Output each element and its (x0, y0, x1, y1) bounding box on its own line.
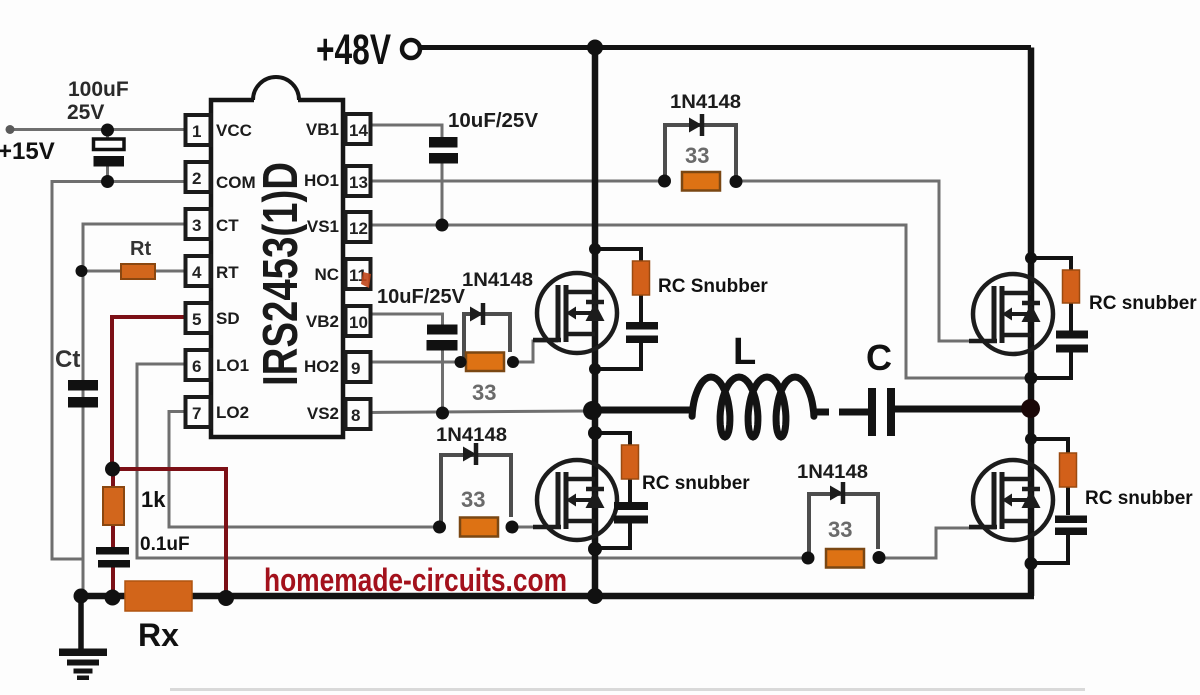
right half-bridge rail (1028, 48, 1035, 597)
node SD pulldown to ground rail (218, 590, 234, 606)
diode D3 1N4148 (463, 443, 476, 465)
diode clamp 1: 1N4148 + 33 on HO1 (665, 125, 736, 181)
wire pin8 VS2 to output node (371, 411, 588, 413)
svg-text:VCC: VCC (216, 121, 252, 140)
svg-text:RC snubber: RC snubber (642, 473, 750, 494)
capacitor RC snubber 1 (626, 322, 658, 330)
node +48V terminal circle (402, 40, 420, 58)
wire pin9 HO2 to diode clamp 2 (371, 361, 462, 364)
capacitor C plates (868, 388, 876, 436)
svg-text:1N4148: 1N4148 (436, 425, 507, 446)
svg-text:RT: RT (216, 263, 239, 282)
wire 100uF bottom lead (106, 166, 109, 182)
svg-text:LO2: LO2 (216, 403, 249, 422)
node Q4 snubber top tap (1025, 433, 1037, 445)
node 0.1uF to ground rail (105, 590, 121, 606)
svg-text:14: 14 (349, 121, 368, 140)
wire pin6 LO1 down and right to 1N4148/33 of Q4 (137, 364, 808, 558)
svg-text:10uF/25V: 10uF/25V (448, 110, 539, 132)
node clamp2 left (455, 356, 467, 368)
capacitor RC snubber 3 (1056, 331, 1088, 339)
pin 12 box (346, 212, 371, 242)
pin 5 box (186, 303, 211, 333)
node output left (bridge midpoint) (583, 401, 602, 420)
pin 13 box (346, 166, 371, 196)
inductor L coil (692, 377, 814, 437)
svg-text:Rx: Rx (138, 617, 179, 653)
svg-text:CT: CT (216, 216, 239, 235)
IC notch (254, 97, 298, 104)
wire 1k bottom to 0.1uF top (111, 524, 115, 548)
node Q1 snubber bottom tap (589, 363, 601, 375)
RC snubber 4 wiring (Q4) (1031, 439, 1068, 454)
svg-text:1k: 1k (141, 487, 166, 512)
node Rt / CT junction (76, 265, 88, 277)
svg-text:2: 2 (192, 169, 201, 188)
svg-text:Ct: Ct (55, 346, 80, 373)
ground symbol (78, 596, 84, 650)
node ground junction (74, 589, 89, 604)
wire SD node through 1k to 0.1uF (111, 469, 115, 489)
wire +15V to pin1 VCC (10, 128, 185, 131)
pin 3 box (186, 209, 211, 239)
capacitor 100uF/25V electrolytic (94, 139, 125, 150)
diode clamp 2: 1N4148 + 33 on HO2 (464, 314, 510, 362)
wire C right plate to right rail (895, 406, 1031, 413)
wire pin14 VB1 to 10uF/25V cap (371, 125, 442, 138)
node clamp1 left (658, 175, 671, 188)
node top rail / left bridge (587, 40, 603, 56)
svg-text:NC: NC (314, 265, 339, 284)
resistor Rt (121, 264, 155, 279)
svg-text:VS2: VS2 (307, 404, 339, 423)
svg-text:COM: COM (216, 173, 256, 192)
svg-text:25V: 25V (67, 101, 104, 124)
wire pin4 RT through Rt to CT line (81, 270, 185, 273)
node output right (C to right rail) (1021, 399, 1040, 418)
svg-text:1N4148: 1N4148 (462, 270, 533, 291)
svg-text:HO2: HO2 (304, 357, 339, 376)
svg-text:7: 7 (192, 404, 201, 423)
pin 6 box (186, 350, 211, 380)
svg-text:6: 6 (192, 357, 201, 376)
transistor Q2 MOSFET bottom-left (533, 460, 617, 540)
diode clamp 3: 1N4148 + 33 on Q2 gate (441, 455, 511, 527)
capacitor RC snubber 2 (614, 502, 648, 510)
svg-text:0.1uF: 0.1uF (140, 534, 190, 555)
capacitor 10uF/25V (VB1) (429, 137, 458, 148)
svg-text:100uF: 100uF (68, 78, 129, 101)
svg-text:5: 5 (192, 310, 201, 329)
left half-bridge rail (592, 48, 599, 597)
capacitor RC snubber 4 (1055, 516, 1087, 524)
output node wire to L (592, 407, 694, 414)
svg-text:+15V: +15V (0, 138, 55, 165)
svg-text:9: 9 (351, 359, 360, 378)
+48V supply rail top (420, 45, 1031, 50)
capacitor 0.1uF (96, 547, 129, 555)
IC U1 IRS2453(1)D body (211, 100, 343, 437)
RC snubber 2 wiring (Q2) (595, 433, 630, 446)
wire SD dark red from pin5 (112, 317, 185, 469)
node 10uF cap1 to VS1 (436, 219, 449, 232)
transistor Q4 MOSFET bottom-right (969, 460, 1053, 540)
wire 0.1uF bottom to ground rail (111, 566, 115, 598)
svg-text:+48V: +48V (316, 26, 391, 74)
pin 10 box (346, 306, 371, 336)
node 10uF cap2 to VS2 (436, 407, 449, 420)
svg-text:1: 1 (192, 122, 201, 141)
node Q3 source tap (1025, 372, 1038, 385)
svg-text:Rt: Rt (130, 238, 151, 260)
svg-text:1N4148: 1N4148 (670, 92, 741, 113)
wire pin12 VS1 to Q3 source (371, 225, 1026, 378)
svg-text:homemade-circuits.com: homemade-circuits.com (264, 562, 567, 598)
svg-text:HO1: HO1 (304, 171, 339, 190)
svg-text:33: 33 (828, 517, 852, 542)
node 100uF top junction (101, 124, 114, 137)
RC snubber 3 wiring (Q3) (1031, 258, 1071, 271)
diode D2 1N4148 (470, 303, 483, 325)
resistor 1k vertical (103, 487, 124, 525)
pin 11 box (346, 259, 372, 289)
svg-text:10: 10 (349, 313, 368, 332)
pin 14 box (346, 114, 371, 144)
pin 2 box (186, 162, 211, 192)
node SD junction (105, 462, 120, 477)
node clamp2 right (507, 356, 519, 368)
wire segment to C left plate (839, 409, 868, 416)
resistor RC snubber 3 (1063, 270, 1080, 303)
svg-text:12: 12 (349, 219, 368, 238)
node clamp3 right (506, 521, 519, 534)
diode D4 1N4148 (830, 482, 843, 504)
svg-text:RC snubber: RC snubber (1085, 488, 1193, 509)
resistor RC snubber 1 (633, 261, 650, 295)
svg-text:VB2: VB2 (306, 312, 339, 331)
wire SD node to Rx right via dark red (112, 469, 226, 598)
resistor 33 (4) (826, 549, 864, 568)
pin 9 box (346, 352, 371, 382)
resistor 33 (3) (460, 518, 498, 537)
wire clamp3 to Q2 gate (512, 526, 558, 529)
wire HO2 clamp to Q1 gate (513, 341, 558, 362)
node clamp1 right (730, 175, 743, 188)
node Q1 snubber top tap (589, 243, 601, 255)
node Q2 source to bottom rail (587, 588, 603, 604)
svg-text:33: 33 (472, 380, 496, 405)
svg-text:LO1: LO1 (216, 356, 249, 375)
capacitor Ct (68, 380, 98, 391)
wire HO1 clamp to Q3 gate (735, 181, 996, 341)
svg-text:3: 3 (192, 216, 201, 235)
RC snubber 1 wiring (Q1) (595, 249, 641, 262)
svg-text:10uF/25V: 10uF/25V (377, 286, 466, 308)
wire clamp4 to Q4 gate (879, 528, 996, 558)
pin 8 box (346, 399, 371, 429)
wire pin3 CT down to ground node (83, 224, 185, 596)
node clamp3 left (433, 521, 446, 534)
svg-text:RC Snubber: RC Snubber (658, 276, 768, 297)
resistor Rx (125, 581, 192, 611)
resistor RC snubber 2 (622, 445, 639, 479)
transistor Q1 MOSFET top-left (533, 273, 617, 353)
capacitor 10uF/25V (VB2) (427, 325, 458, 335)
wire pin7 LO2 down and right to 1N4148/33 of Q2 (169, 412, 440, 528)
pin 1 box (186, 115, 211, 145)
diode D1 1N4148 (689, 114, 702, 136)
svg-text:C: C (866, 337, 892, 378)
wire pin13 HO1 to diode clamp (371, 180, 666, 183)
node Q2 snubber top tap (588, 426, 602, 440)
resistor RC snubber 4 (1060, 453, 1077, 487)
svg-text:L: L (733, 331, 756, 373)
transistor Q3 MOSFET top-right (969, 274, 1053, 354)
svg-text:1N4148: 1N4148 (797, 462, 868, 483)
diode clamp 4: 1N4148 + 33 on Q4 gate (809, 494, 878, 558)
svg-text:33: 33 (461, 487, 485, 512)
node Q3 snubber top tap (1025, 252, 1037, 264)
bottom edge scan line (170, 688, 1085, 691)
resistor 33 (2) (466, 353, 504, 372)
svg-text:33: 33 (685, 143, 709, 168)
svg-text:13: 13 (349, 173, 368, 192)
bottom return rail (81, 593, 1034, 600)
svg-text:SD: SD (216, 309, 240, 328)
node Q4 snubber bottom tap (1025, 557, 1038, 570)
node Q2 snubber bottom tap (588, 542, 602, 556)
svg-text:VS1: VS1 (307, 217, 339, 236)
wire 10uF/25V cap2 bottom to VS2 (441, 350, 444, 413)
svg-text:RC snubber: RC snubber (1089, 293, 1197, 314)
wire pin10 VB2 to 10uF/25V cap 2 (371, 314, 443, 325)
pin 7 box (186, 397, 211, 427)
wire 10uF/25V bottom to VS1 (441, 163, 444, 225)
svg-text:VB1: VB1 (306, 120, 339, 139)
node 100uF bottom junction (101, 175, 114, 188)
svg-text:4: 4 (192, 263, 202, 282)
node +15V terminal (6, 125, 15, 134)
svg-text:8: 8 (351, 406, 360, 425)
resistor 33 (1) (682, 172, 720, 191)
node clamp4 left (802, 552, 815, 565)
wire 100uF top lead (106, 130, 109, 140)
pin 4 box (186, 256, 211, 286)
wire pin2 COM to left rail (52, 182, 185, 560)
svg-text:IRS2453(1)D: IRS2453(1)D (254, 162, 308, 386)
wire L to C (812, 409, 829, 416)
node clamp4 right (873, 551, 886, 564)
